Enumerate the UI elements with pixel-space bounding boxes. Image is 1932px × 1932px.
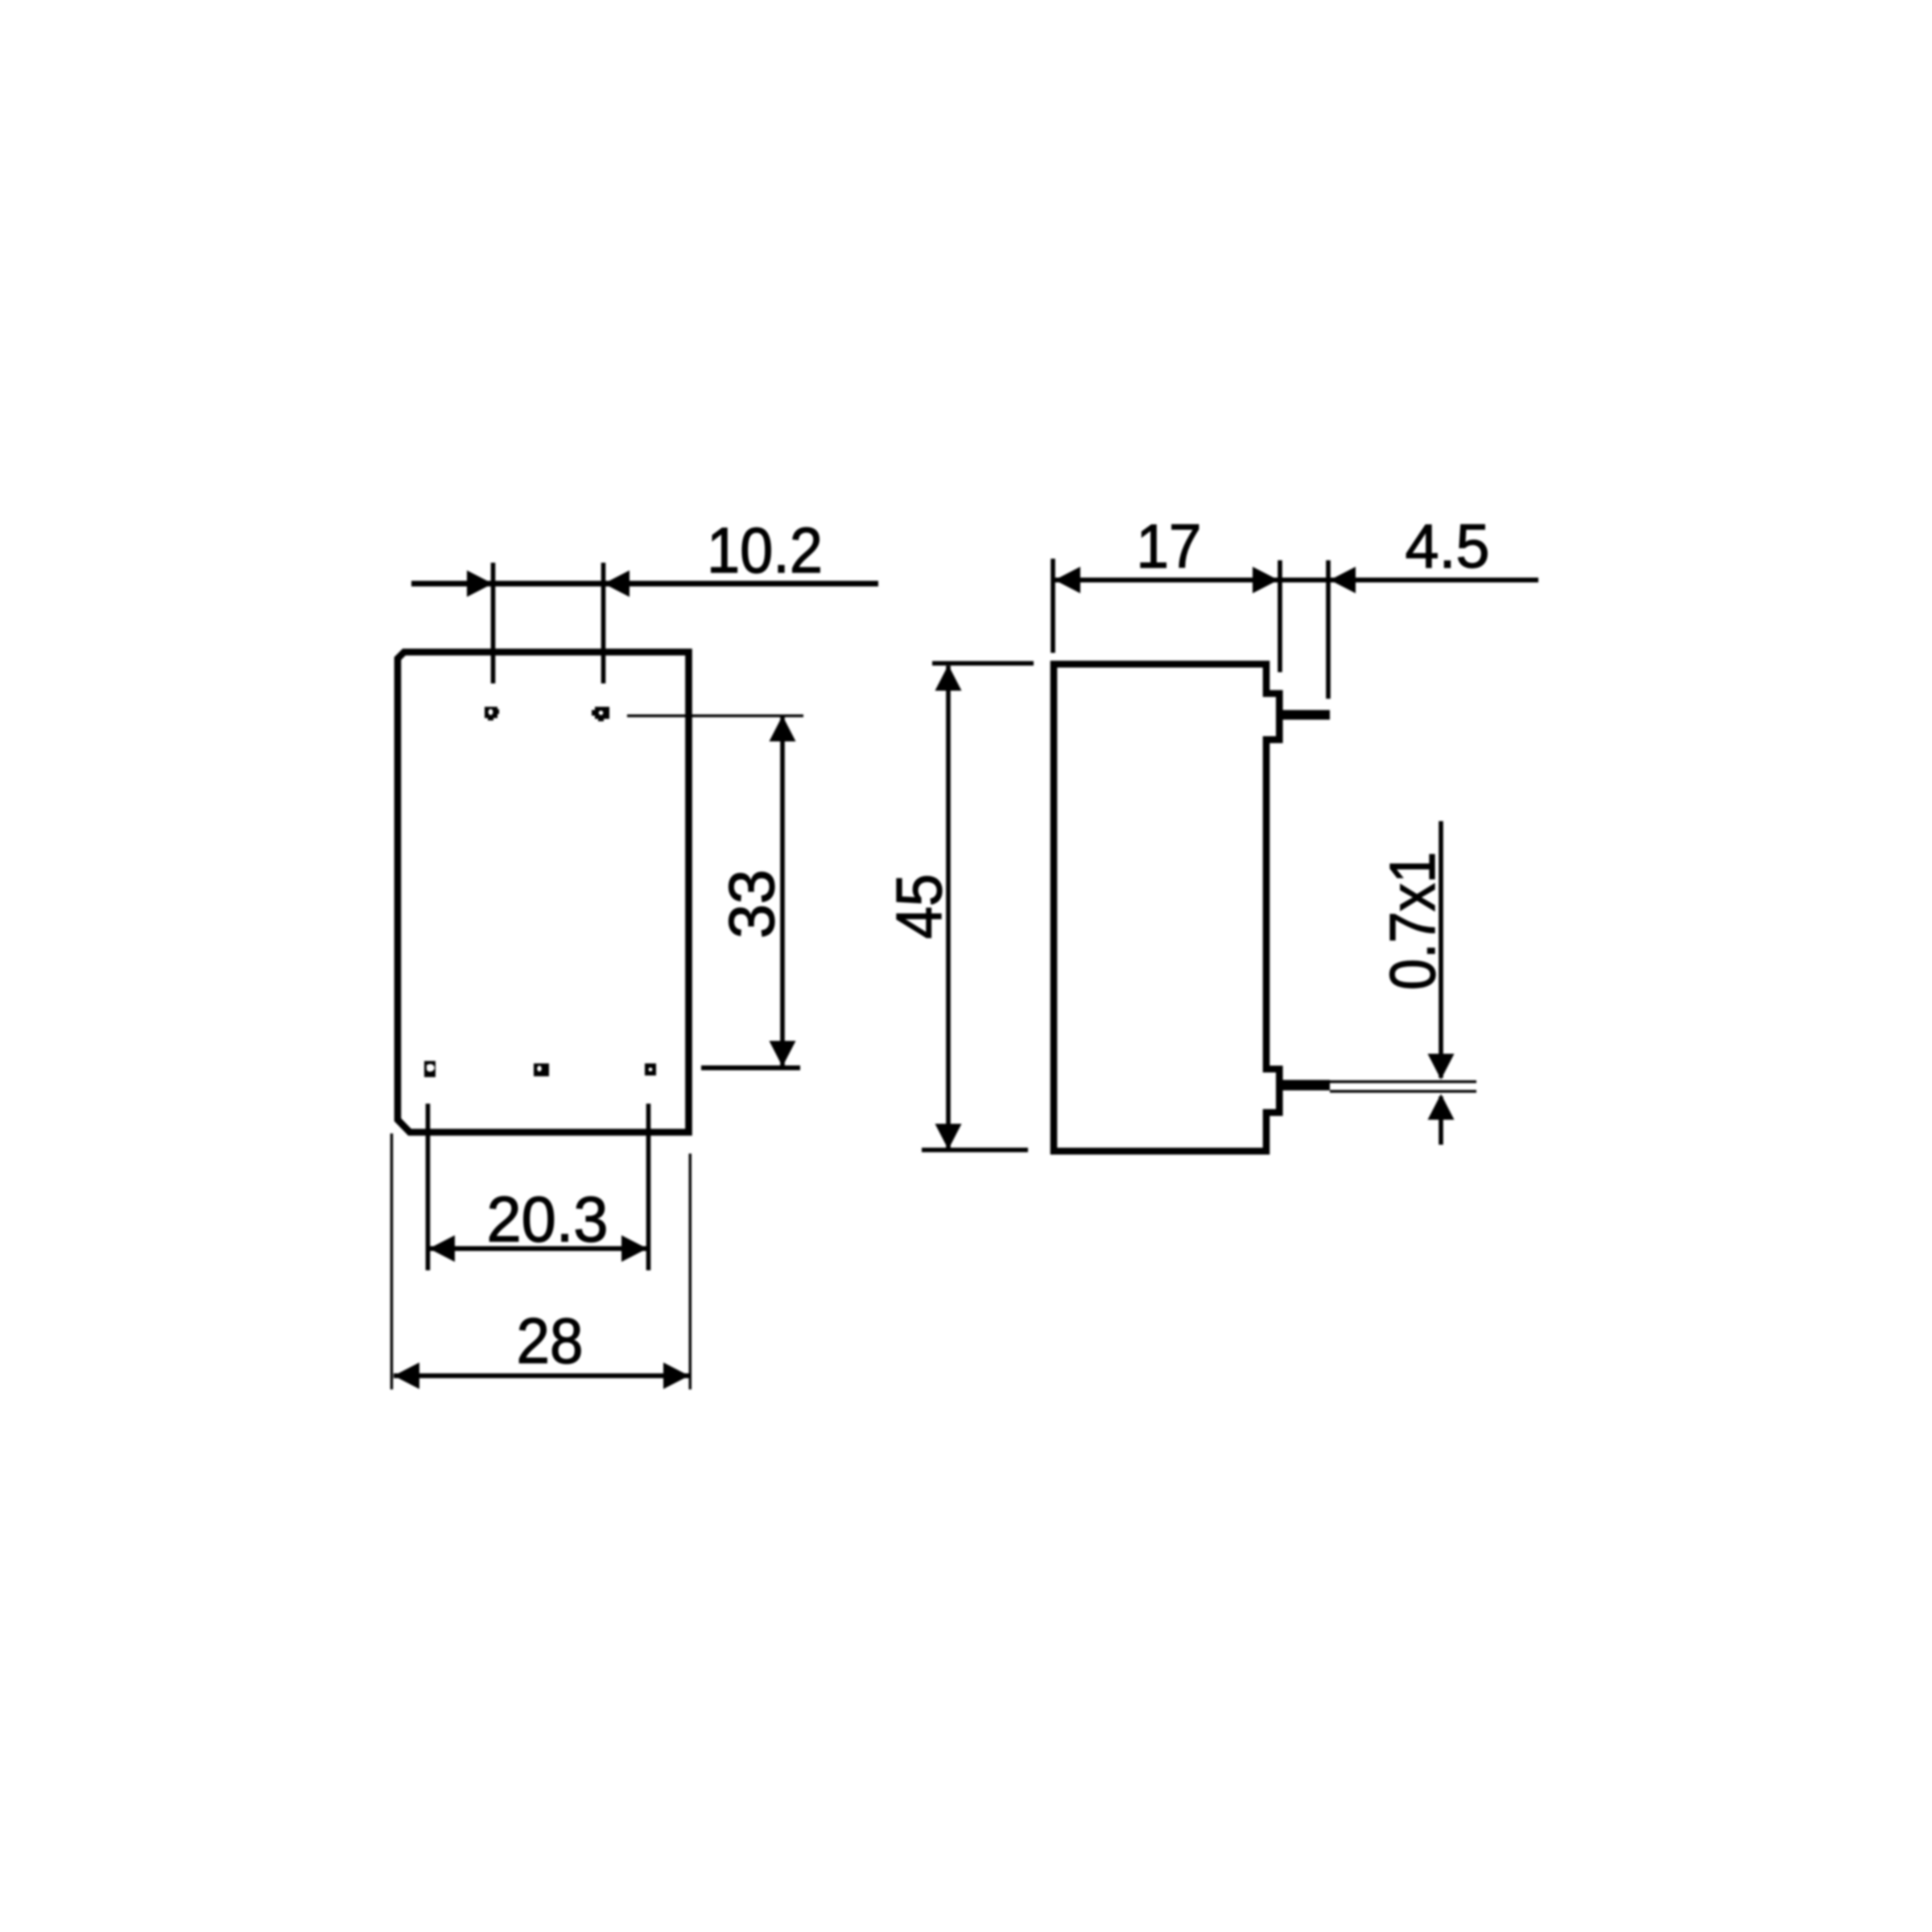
dimension 45: bottom extension line bbox=[922, 1148, 1028, 1153]
dimension 10.2: extension line right bbox=[601, 563, 606, 683]
dimension 0.7x1: up arrow bbox=[1428, 1094, 1455, 1120]
leader line bottom right bbox=[701, 1066, 800, 1071]
svg-text:28: 28 bbox=[517, 1305, 584, 1377]
dimension 17+4.5: shared dimension line bbox=[1055, 578, 1538, 583]
side view: relay body outline with pin notches bbox=[1054, 664, 1279, 1151]
dimension 4.5: extension line B bbox=[1326, 560, 1331, 699]
dimension 45: top arrow (pointing up) bbox=[935, 665, 962, 691]
dimension 45: bottom arrow (pointing down) bbox=[935, 1124, 962, 1150]
dimension 0.7x1: lower dimension line bbox=[1439, 1096, 1443, 1145]
svg-text:20.3: 20.3 bbox=[487, 1183, 609, 1255]
dimension 20.3: left arrow (pointing left) bbox=[429, 1236, 455, 1262]
dimension 10.2: extension line left bbox=[491, 563, 496, 683]
pin 1 (top-left pin pad) bbox=[485, 707, 499, 720]
bottom view: relay body outline bbox=[398, 652, 689, 1133]
svg-text:33: 33 bbox=[716, 869, 787, 939]
dimension 33: dimension line bbox=[780, 716, 785, 1066]
pin B (bottom-middle pin pad) bbox=[534, 1063, 549, 1076]
dimension 20.3: right arrow (pointing right) bbox=[621, 1236, 647, 1262]
dimension 4.5: extension line A bbox=[1278, 560, 1282, 672]
dimension 20.3: extension line left bbox=[426, 1104, 431, 1270]
svg-text:17: 17 bbox=[1137, 512, 1202, 581]
pin C (bottom-right pin pad) bbox=[645, 1063, 656, 1075]
dimension 17: extension line left bbox=[1051, 559, 1055, 653]
svg-text:10.2: 10.2 bbox=[707, 514, 823, 586]
dimension 20.3: dimension line bbox=[429, 1246, 647, 1251]
dimension 0.7x1: upper dimension line bbox=[1439, 821, 1443, 1078]
dimension 20.3: extension line right bbox=[646, 1104, 651, 1270]
pin A (bottom-left pin pad) bbox=[424, 1061, 436, 1077]
svg-text:4.5: 4.5 bbox=[1406, 512, 1490, 581]
dimension 45: dimension line bbox=[946, 666, 951, 1149]
side view: lower pin bbox=[1279, 1080, 1330, 1091]
dimension 17: left arrow (pointing left) bbox=[1055, 567, 1080, 593]
dimension 28: extension line left bbox=[390, 1133, 393, 1389]
dimension 0.7x1: down arrow bbox=[1428, 1054, 1455, 1080]
dimension 17: right arrow (pointing right) bbox=[1253, 567, 1278, 593]
dimension 10.2: right arrow (pointing left) bbox=[604, 571, 630, 597]
dimension 28: right arrow (pointing right) bbox=[663, 1363, 689, 1389]
pin 2 (top-right pin pad) bbox=[592, 707, 609, 721]
dimension 33: bottom arrow (pointing down) bbox=[770, 1041, 796, 1067]
dimension 4.5: arrow (pointing left) bbox=[1330, 567, 1356, 593]
lower pin edge line bottom (thin) bbox=[1330, 1090, 1476, 1092]
lower pin edge line top (thin) bbox=[1330, 1080, 1476, 1083]
dimension 28: left arrow (pointing left) bbox=[394, 1363, 419, 1389]
dimension 28: dimension line bbox=[394, 1373, 689, 1378]
side view: upper pin bbox=[1279, 710, 1330, 720]
dimension 10.2: dimension line bbox=[411, 581, 878, 587]
dimension 45: top extension line bbox=[932, 661, 1034, 666]
svg-text:0.7x1: 0.7x1 bbox=[1377, 852, 1448, 990]
svg-text:45: 45 bbox=[883, 874, 955, 939]
dimension 10.2: left arrow (pointing right) bbox=[467, 571, 493, 597]
dimension 33: top arrow (pointing up) bbox=[770, 716, 796, 741]
leader line from pin 2 (top) bbox=[627, 715, 803, 717]
dimension 28: extension line right bbox=[689, 1154, 691, 1389]
